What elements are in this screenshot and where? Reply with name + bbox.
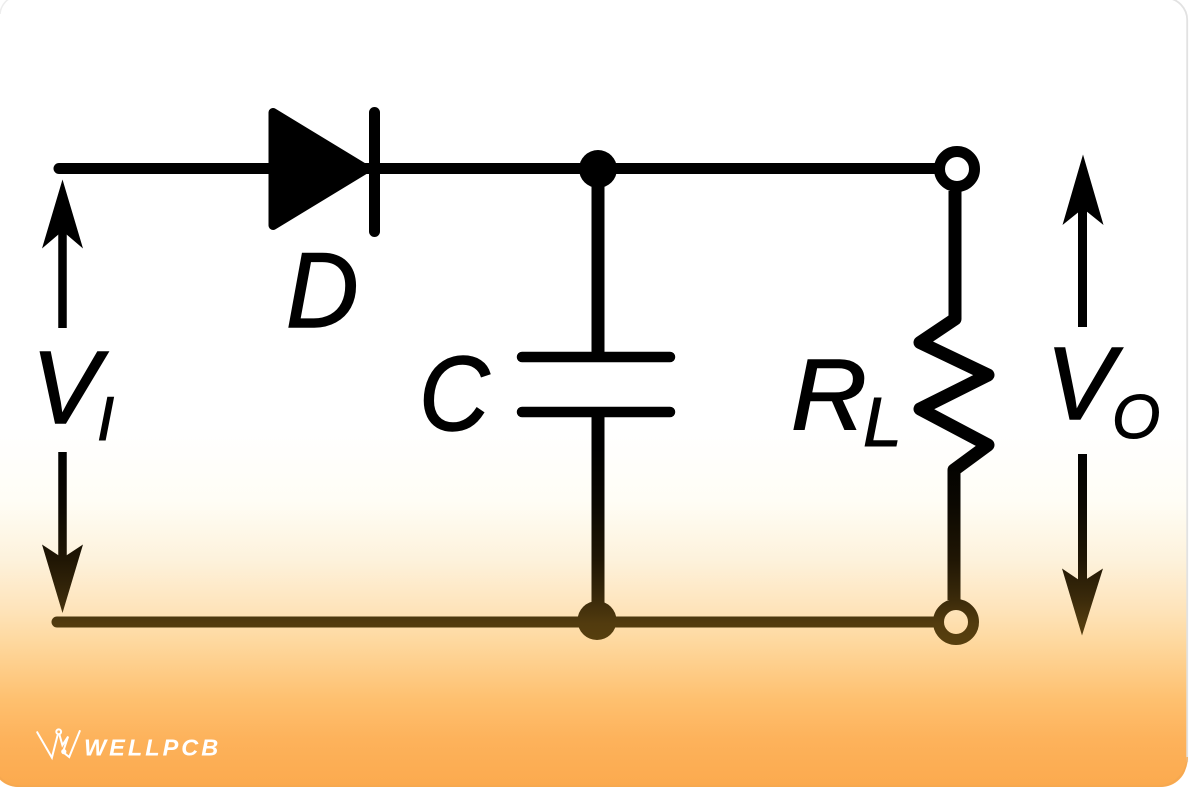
arrow VI down shaft [58, 452, 67, 562]
diode cathode bar [369, 113, 380, 232]
capacitor C top plate [522, 352, 670, 363]
svg-text:O: O [1112, 383, 1160, 452]
card bottom edge [0, 757, 1187, 786]
capacitor C bottom plate [522, 407, 670, 418]
arrow VI down head [42, 545, 83, 614]
wire capacitor top lead [592, 169, 605, 352]
arrow VO down head [1062, 569, 1103, 636]
terminal bottom right [939, 605, 974, 640]
arrow VI up head [42, 180, 83, 249]
node junction bottom [578, 601, 617, 640]
arrow VO down shaft [1078, 454, 1087, 587]
terminal top right [940, 152, 975, 187]
svg-text:C: C [419, 334, 491, 453]
wire top horizontal [59, 163, 936, 174]
node junction top [579, 150, 617, 188]
arrow VI up shaft [58, 226, 67, 328]
svg-text:I: I [97, 385, 114, 454]
card right border [1166, 0, 1187, 762]
resistor RL zigzag [920, 191, 988, 600]
wire capacitor bottom lead [592, 417, 605, 622]
svg-text:WELLPCB: WELLPCB [84, 735, 221, 761]
wire bottom horizontal [57, 617, 935, 628]
diode D [273, 113, 366, 226]
svg-text:R: R [791, 338, 867, 450]
logo W icon [37, 729, 80, 757]
card top-left corner arc [0, 0, 16, 14]
svg-text:D: D [286, 231, 359, 351]
logo W dot [61, 749, 66, 754]
arrow VO up shaft [1078, 204, 1087, 327]
arrow VO up head [1063, 155, 1104, 226]
svg-text:L: L [863, 383, 902, 461]
